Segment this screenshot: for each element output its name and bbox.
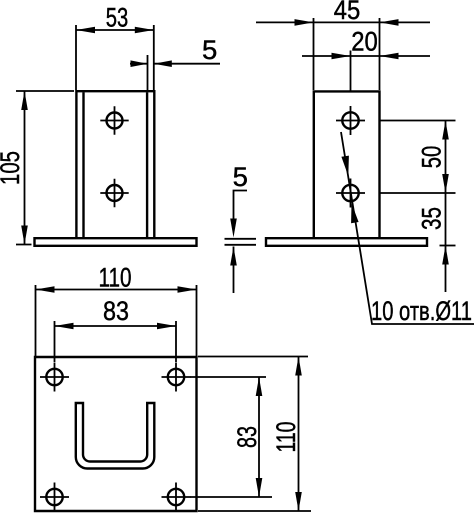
hole P2 center lines bbox=[162, 363, 191, 392]
svg-text:105: 105 bbox=[0, 151, 25, 185]
dim 5 front arrow right bbox=[154, 60, 172, 67]
plan view square plate bbox=[35, 357, 197, 511]
hole S1 center lines bbox=[336, 106, 365, 135]
dim 83 right extension lines bbox=[190, 377, 272, 497]
dim 83 top line bbox=[55, 325, 177, 327]
side view hole center line bbox=[350, 51, 352, 92]
svg-text:5: 5 bbox=[202, 35, 217, 65]
hole P4 circle bbox=[168, 489, 184, 505]
svg-text:83: 83 bbox=[232, 426, 262, 448]
dim 105 arrow up bbox=[21, 91, 28, 110]
hole P3 center lines bbox=[40, 483, 69, 512]
hole S1 circle bbox=[342, 112, 358, 128]
dim 110 top arrow left bbox=[36, 286, 55, 293]
dim 110 top arrow right bbox=[178, 286, 197, 293]
dim 53 line bbox=[76, 29, 154, 31]
dim 83 right line bbox=[258, 377, 260, 497]
hole F1 circle bbox=[107, 113, 123, 129]
svg-text:110: 110 bbox=[99, 263, 132, 293]
hole P3 circle bbox=[46, 489, 62, 505]
front view base plate bbox=[35, 238, 197, 246]
dim 50/35 line bbox=[445, 121, 447, 293]
dim 110 top line bbox=[36, 289, 197, 291]
dim 53 extension lines bbox=[76, 25, 154, 90]
dim 110 right extension lines bbox=[198, 357, 311, 512]
hole P4 center lines bbox=[162, 483, 191, 512]
hole P1 circle bbox=[46, 369, 62, 385]
dim 5 plate leader hook bbox=[234, 191, 248, 221]
dim 5 front lines bbox=[130, 63, 220, 65]
svg-text:5: 5 bbox=[233, 162, 248, 192]
front view inner right wall bbox=[146, 92, 148, 238]
hole P1 center lines bbox=[40, 363, 69, 392]
leader arrow to hole S2 bottom bbox=[351, 203, 359, 223]
dim 83 top arrow left bbox=[55, 323, 74, 330]
dim 53 arrow left bbox=[76, 27, 95, 34]
hole S2 circle bbox=[342, 185, 358, 201]
dim 20 arrow right bbox=[380, 53, 399, 60]
side view base plate bbox=[266, 238, 427, 246]
leader line 10 holes bbox=[341, 132, 474, 324]
svg-text:53: 53 bbox=[106, 3, 129, 33]
dim 50 extension lines bbox=[380, 121, 456, 194]
dim 105 extension lines bbox=[16, 91, 74, 245]
svg-text:45: 45 bbox=[334, 0, 361, 25]
dim 110 right arrow up bbox=[295, 357, 302, 376]
dim 50 arrow down bbox=[442, 174, 449, 193]
dim 83 top arrow right bbox=[157, 323, 176, 330]
dim 5 plate arrow down bbox=[230, 219, 237, 238]
leader arrow to hole S2 top bbox=[341, 156, 349, 176]
dim 45 extension lines bbox=[314, 18, 380, 90]
dim 45 arrow left bbox=[295, 19, 314, 26]
dim 105 arrow down bbox=[21, 226, 28, 245]
svg-text:35: 35 bbox=[417, 207, 447, 230]
dim 105 line bbox=[24, 91, 26, 245]
dim 35 extension line bbox=[440, 245, 456, 247]
dim 83 top extension lines bbox=[55, 321, 177, 362]
dim 20 arrow left bbox=[332, 53, 351, 60]
hole S2 center lines bbox=[336, 179, 365, 208]
dim 50 arrow up bbox=[442, 121, 449, 140]
dim 110 top extension lines bbox=[36, 285, 197, 356]
svg-text:110: 110 bbox=[271, 422, 301, 453]
dim 45 arrow right bbox=[380, 19, 399, 26]
dim 45 line bbox=[256, 21, 430, 23]
svg-text:10 отв.Ø11: 10 отв.Ø11 bbox=[371, 296, 472, 326]
dim 5 plate extension lines bbox=[225, 239, 257, 245]
dim 35 outside arrow up bbox=[442, 246, 449, 265]
dim 5 plate arrow up below bbox=[230, 247, 237, 266]
hole F2 center lines bbox=[100, 179, 128, 207]
dim 5 plate arrow tail bbox=[233, 247, 235, 294]
front view upright outline bbox=[76, 91, 154, 238]
svg-text:20: 20 bbox=[351, 27, 378, 57]
plan view U channel bbox=[76, 403, 155, 469]
side view upright outline bbox=[314, 91, 380, 238]
hole F2 circle bbox=[107, 185, 123, 201]
dim 5 front arrow left bbox=[131, 60, 148, 67]
dim 83 right arrow up bbox=[256, 377, 263, 396]
front view inner left wall bbox=[82, 92, 84, 238]
dim 83 right arrow down bbox=[256, 478, 263, 497]
hole P2 circle bbox=[168, 369, 184, 385]
svg-text:50: 50 bbox=[417, 146, 447, 169]
dim 5 front extension line bbox=[147, 55, 149, 90]
dim 110 right line bbox=[298, 357, 300, 512]
dim 110 right arrow down bbox=[295, 492, 302, 511]
dim 53 arrow right bbox=[135, 27, 154, 34]
hole F1 center lines bbox=[100, 106, 128, 134]
dim 20 line bbox=[302, 55, 430, 57]
svg-text:83: 83 bbox=[103, 296, 129, 326]
